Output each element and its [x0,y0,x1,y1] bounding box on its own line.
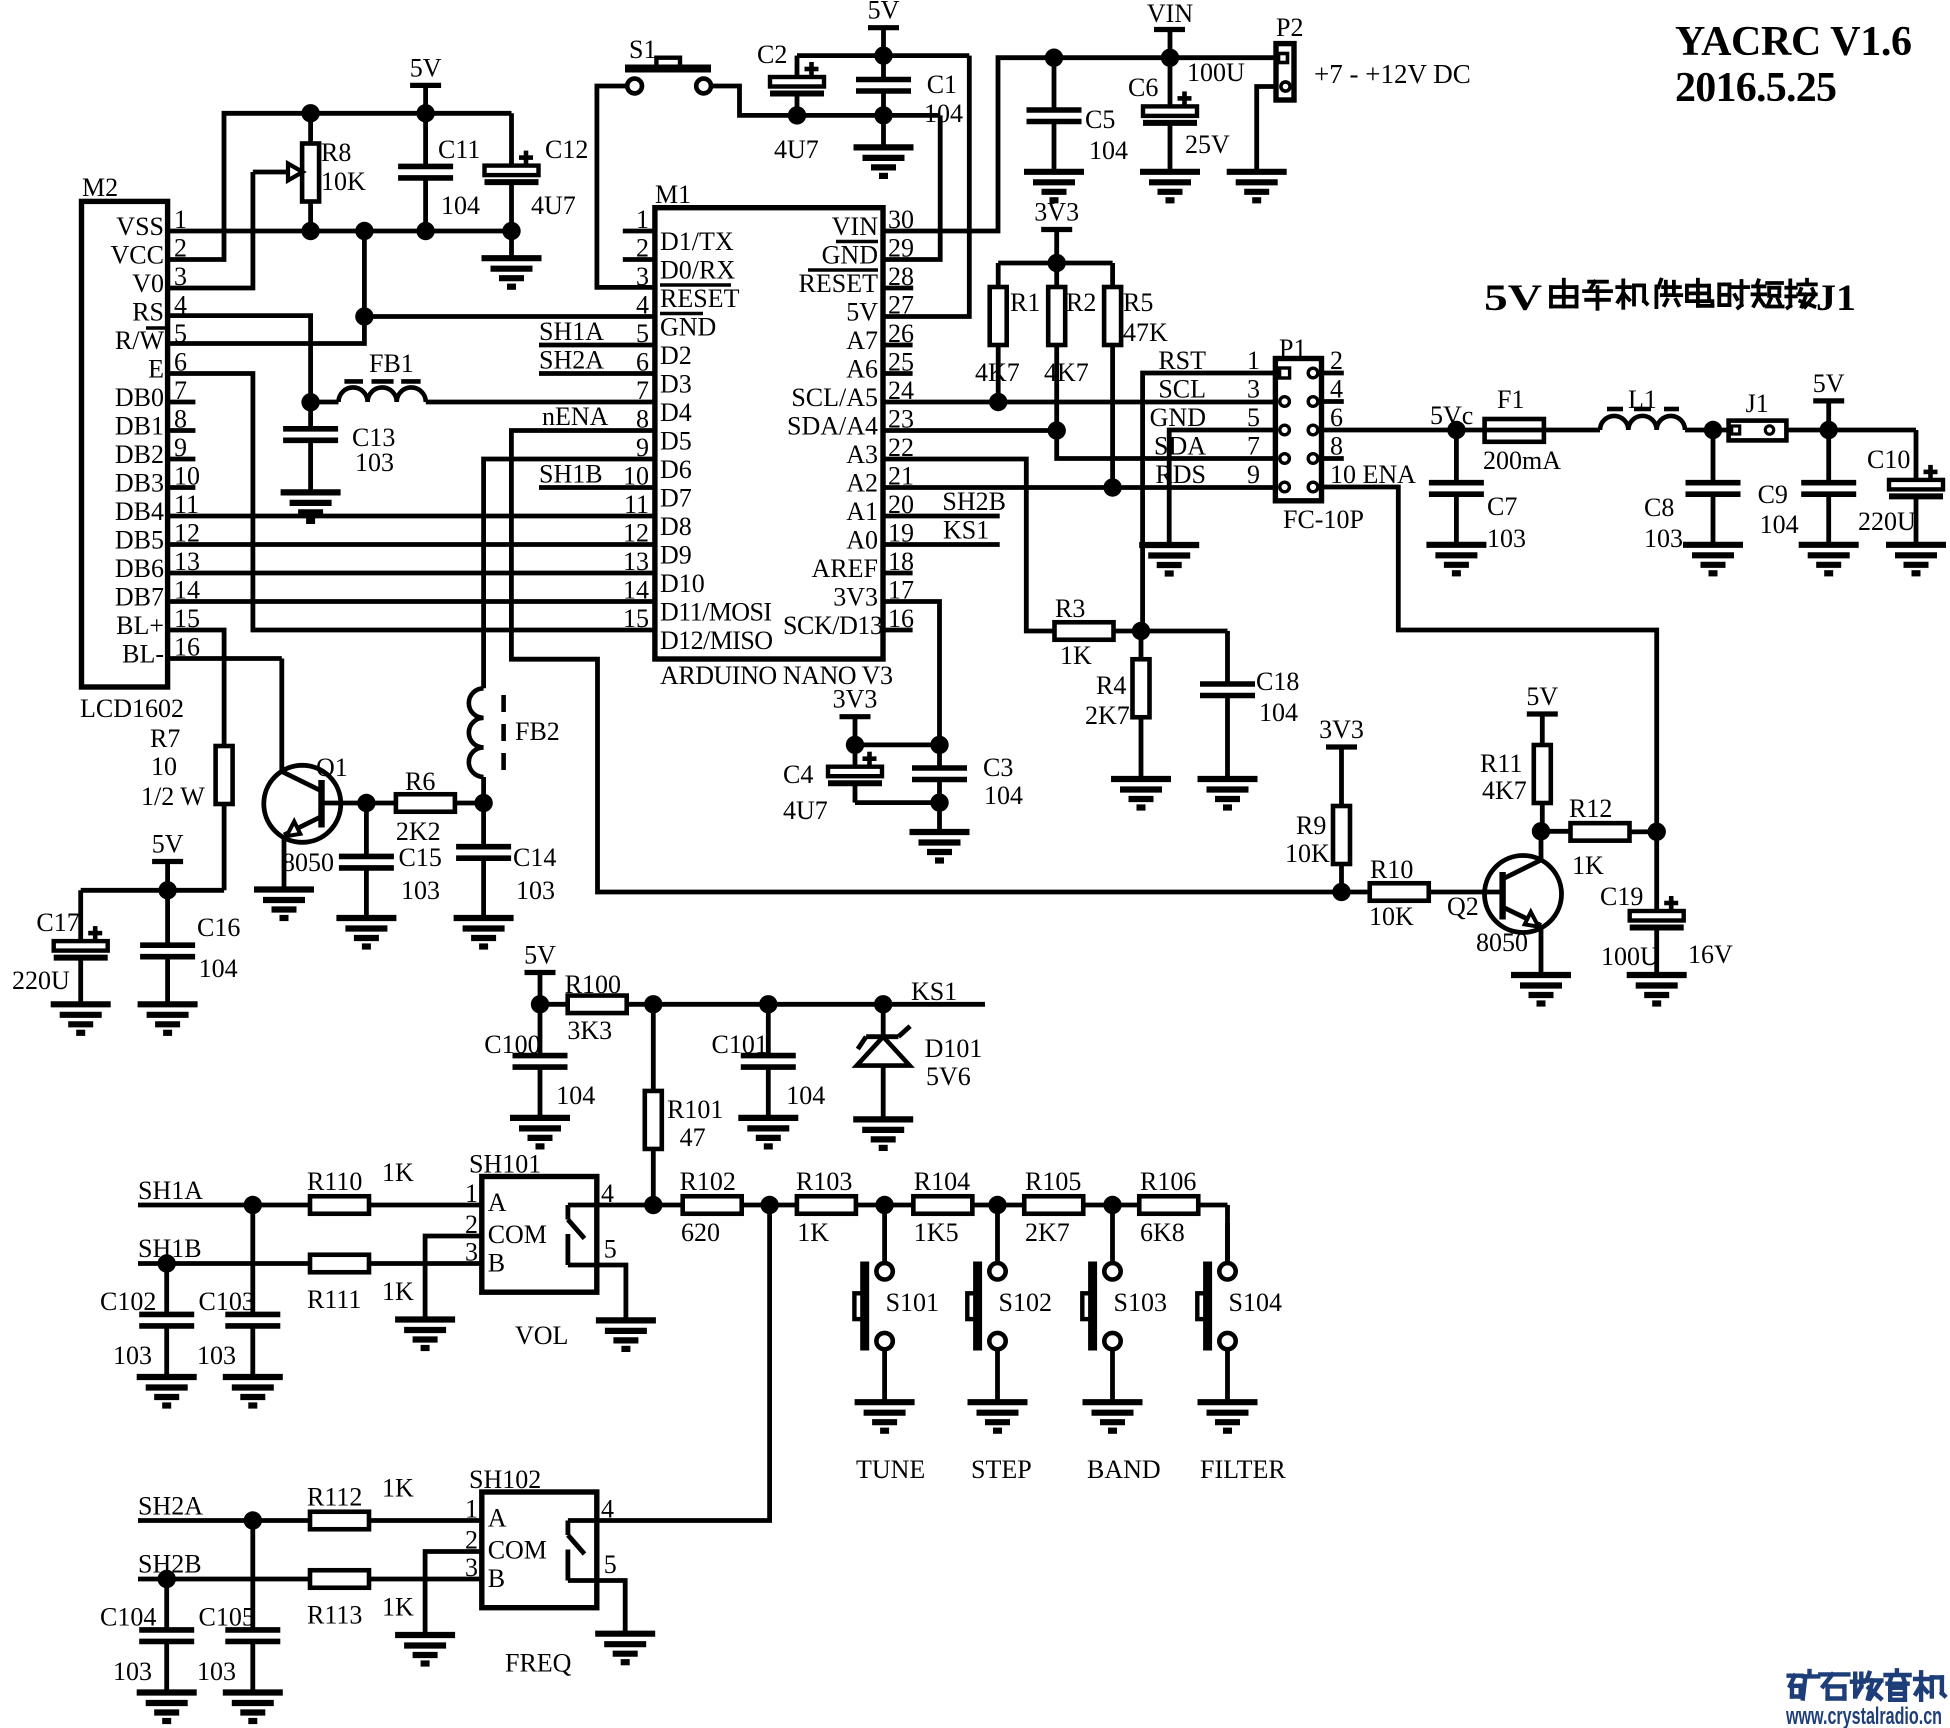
svg-text:1K: 1K [382,1474,414,1503]
svg-text:4K7: 4K7 [1482,776,1527,805]
svg-text:A: A [488,1504,507,1533]
svg-text:C11: C11 [438,135,480,164]
wire 5V top rail [797,53,969,58]
node 5V-C16 junction [158,881,176,899]
wire S1 to ground rail [711,86,940,115]
svg-text:S1: S1 [629,35,656,64]
inductor L1 [1600,385,1685,430]
node 5Vrail-C11 junction [416,104,434,122]
LCD module M2 box [80,173,184,723]
svg-text:D9: D9 [660,541,692,570]
svg-text:D2: D2 [660,341,692,370]
svg-text:FC-10P: FC-10P [1283,505,1364,534]
node SH1B-C102 junction [158,1254,176,1272]
wire P2 pin2 to ground [1257,87,1276,172]
svg-text:3V3: 3V3 [1034,198,1079,227]
label +7-+12V DC [1314,59,1471,89]
wire SH1A line [138,1176,310,1205]
ground SH102 COM [395,1635,455,1664]
svg-text:C18: C18 [1256,667,1299,696]
wire P1 pin8 stub [1322,456,1344,461]
svg-text:5V: 5V [524,941,556,970]
svg-text:16V: 16V [1688,940,1733,969]
ground C5 [1024,172,1084,201]
svg-text:R112: R112 [307,1483,362,1512]
node VIN-C6 junction [1161,49,1179,67]
svg-text:47: 47 [680,1123,706,1152]
svg-text:4K7: 4K7 [1044,358,1089,387]
wire VSS drop to GND line [362,231,367,317]
svg-text:SCL: SCL [1158,375,1206,404]
wire 5V rail to pin27 [883,56,969,317]
wire DB6 to D10 [168,571,655,576]
capacitor C11 [398,113,480,231]
svg-text:100U: 100U [1601,942,1659,971]
svg-text:C3: C3 [983,753,1013,782]
node gndrail-C2 junction [788,106,806,124]
wire A6 stub [883,371,913,376]
wire SCK/D13 stub [883,628,913,633]
svg-text:S104: S104 [1229,1288,1282,1317]
resistor R6 [366,767,483,846]
svg-text:C9: C9 [1758,480,1788,509]
power 3V3 (R9) [1319,715,1364,806]
svg-text:2K2: 2K2 [396,817,441,846]
wire VCC to 5V rail [168,113,512,259]
svg-text:SCK/D13: SCK/D13 [783,611,883,640]
ground C18 [1198,779,1258,808]
svg-text:103: 103 [197,1341,236,1370]
svg-text:R105: R105 [1025,1167,1081,1196]
svg-text:RST: RST [1158,346,1206,375]
wire SH1B line [138,1234,310,1264]
svg-text:Q2: Q2 [1447,892,1479,921]
svg-text:SDA: SDA [1154,432,1206,461]
ground C1 [854,147,914,176]
potentiometer R8 [253,113,366,232]
svg-text:D4: D4 [660,398,692,427]
node FB1-C13 junction [301,393,319,411]
svg-text:8050: 8050 [1476,928,1528,957]
node chain-S101 junction [875,1196,893,1214]
wire SCL net [883,400,1275,405]
svg-text:D5: D5 [660,427,692,456]
svg-text:YACRC V1.6: YACRC V1.6 [1675,19,1912,65]
svg-text:VSS: VSS [116,212,164,241]
wire 3V3 rail [998,261,1112,266]
ground C13 [281,492,341,521]
svg-text:D7: D7 [660,484,692,513]
wire S1 to RESET pin3 [597,86,655,287]
wire LCD DB0 stub [168,400,196,405]
fuse F1 [1456,385,1600,475]
svg-text:C6: C6 [1128,73,1158,102]
svg-text:14: 14 [623,576,649,605]
svg-text:A3: A3 [846,440,878,469]
svg-text:A6: A6 [846,355,878,384]
svg-text:R103: R103 [796,1167,852,1196]
wire ENA from P1 pin10 [1322,487,1657,832]
resistor R2 [1044,263,1096,431]
svg-text:B: B [488,1564,505,1593]
resistor R101 [645,1004,724,1205]
MCU M1 Arduino Nano box [655,180,893,690]
wire ground rail to GND pin29 [883,115,940,259]
wire LCD DB2 stub [168,457,196,462]
svg-text:D8: D8 [660,512,692,541]
wire LCD DB3 stub [168,485,196,490]
svg-text:GND: GND [660,313,716,342]
svg-text:8050: 8050 [282,848,334,877]
ground C12 [482,258,542,287]
node 5Vc junction [1430,401,1473,439]
node SH1A-C103 junction [244,1196,262,1214]
capacitor C3 [912,745,1023,832]
resistor R100 [565,970,627,1045]
wire BL+ to R7 [168,630,225,746]
node GND-RS junction [355,307,373,325]
svg-text:M1: M1 [655,180,691,209]
svg-text:2K7: 2K7 [1025,1218,1070,1247]
svg-text:SH2B: SH2B [942,487,1006,516]
svg-text:9: 9 [1247,460,1260,489]
node chain-S103 junction [1103,1196,1121,1214]
svg-text:C7: C7 [1487,492,1517,521]
ground P1 GND [1139,545,1199,574]
svg-text:25V: 25V [1185,130,1230,159]
power 5V (R11) [1526,682,1558,745]
zener diode D101 [857,1004,983,1119]
power 3V3 (pullups) [1034,198,1079,264]
power VIN [1147,0,1193,58]
svg-text:103: 103 [113,1657,152,1686]
svg-text:3: 3 [636,262,649,291]
svg-text:GND: GND [822,241,878,270]
svg-text:1K: 1K [797,1218,829,1247]
ground C9 [1799,545,1859,574]
resistor R113 [307,1570,482,1629]
svg-text:104: 104 [1089,136,1128,165]
wire D1/TX stub [623,229,655,234]
svg-text:103: 103 [1644,524,1683,553]
svg-text:COM: COM [488,1220,547,1249]
svg-text:R9: R9 [1296,811,1326,840]
svg-text:R101: R101 [667,1095,723,1124]
ground C101 [738,1118,798,1147]
ferrite bead FB2 [469,688,560,777]
wire FB2 to R6 node [481,777,486,803]
svg-text:STEP: STEP [971,1455,1032,1484]
svg-text:R7: R7 [150,724,180,753]
wire R/W line [168,317,365,344]
svg-text:220U: 220U [1858,507,1916,536]
node VSS-C12 junction [502,222,520,240]
power 5V (output) [1813,369,1845,430]
capacitor C101 [712,1004,826,1118]
svg-text:C101: C101 [712,1030,768,1059]
svg-text:4U7: 4U7 [783,796,828,825]
svg-text:RESET: RESET [799,269,879,298]
node SCL-R1 junction [989,393,1007,411]
node Q2 collector junction [1532,822,1550,840]
svg-text:D11/MOSI: D11/MOSI [660,598,772,627]
svg-text:SH1A: SH1A [138,1176,203,1205]
resistor R110 [307,1158,482,1214]
svg-text:104: 104 [1760,510,1799,539]
svg-text:1K: 1K [382,1158,414,1187]
capacitor C9 [1758,430,1857,545]
resistor R11 [1480,745,1551,831]
capacitor C14 [456,803,556,918]
svg-text:SH2A: SH2A [539,346,604,375]
svg-text:R5: R5 [1123,288,1153,317]
svg-text:KS1: KS1 [943,516,989,545]
node chain-S102 junction [988,1196,1006,1214]
svg-text:R10: R10 [1370,855,1413,884]
ground Q1 emitter [254,890,314,919]
svg-text:VOL: VOL [515,1321,568,1350]
svg-text:1K: 1K [382,1277,414,1306]
node 3V3 junction [1048,254,1066,272]
svg-text:7: 7 [636,376,649,405]
svg-text:5V: 5V [846,298,878,327]
wire DB7 to D11 [168,599,655,604]
resistor R9 [1285,806,1350,892]
svg-text:A7: A7 [846,326,878,355]
svg-text:J1: J1 [1746,389,1769,418]
node SH2B-C104 junction [158,1570,176,1588]
resistor R104 [913,1167,1025,1247]
ground C19 [1627,975,1687,1004]
resistor R102 [653,1167,797,1247]
capacitor C10 [1858,445,1943,545]
wire SH102 COM to ground [425,1552,482,1636]
svg-text:5V: 5V [152,830,184,859]
svg-text:DB0: DB0 [115,383,164,412]
wire E to D12/MISO [168,374,655,631]
node VSS-R8 junction [301,222,319,240]
svg-text:R100: R100 [565,970,621,999]
svg-text:DB7: DB7 [115,583,164,612]
watermark crystalradio [1785,1670,1944,1728]
node 5Vtop junction [874,46,892,64]
wire D2 SH1A stub [539,317,655,346]
svg-text:10K: 10K [1285,839,1330,868]
wire SH102 pin4 to chain [597,1205,770,1521]
svg-text:SDA/A4: SDA/A4 [787,412,878,441]
wire SH101 pin4 out [597,1203,654,1208]
svg-text:DB5: DB5 [115,526,164,555]
svg-text:1K: 1K [1572,851,1604,880]
svg-text:R8: R8 [321,138,351,167]
svg-text:11: 11 [624,490,649,519]
svg-text:15: 15 [623,604,649,633]
ground C7 [1426,545,1486,574]
wire V0 to R8 wiper [168,172,253,288]
svg-text:BAND: BAND [1087,1455,1161,1484]
resistor R106 [1139,1167,1227,1247]
wire D0/RX stub [623,257,655,262]
svg-text:R110: R110 [307,1167,362,1196]
svg-text:5V: 5V [1484,278,1542,319]
svg-text:220U: 220U [12,966,70,995]
node VIN-C5 junction [1045,49,1063,67]
ground SH101 COM [395,1320,455,1349]
svg-text:12: 12 [623,519,649,548]
svg-text:R1: R1 [1010,288,1040,317]
svg-text:C12: C12 [545,135,588,164]
svg-text:C10: C10 [1867,445,1910,474]
svg-text:1/2 W: 1/2 W [141,782,205,811]
svg-text:AREF: AREF [812,554,878,583]
svg-text:R113: R113 [307,1601,362,1630]
svg-text:10K: 10K [1369,902,1414,931]
svg-text:VCC: VCC [111,241,164,270]
node VSS-C11 junction [416,222,434,240]
svg-text:2016.5.25: 2016.5.25 [1675,65,1837,111]
svg-text:2K7: 2K7 [1085,701,1130,730]
wire DB4 to D8 [168,514,655,519]
svg-text:C5: C5 [1085,105,1115,134]
jumper J1 [1729,389,1787,440]
svg-text:TUNE: TUNE [856,1455,925,1484]
svg-text:R11: R11 [1480,749,1522,778]
capacitor C17 [12,890,108,1004]
capacitor C4 [783,745,940,825]
node chain-R101 junction [644,1196,662,1214]
wire A7 stub [883,343,913,348]
switch S104 [1197,1223,1286,1484]
node gndrail-C1 junction [874,106,892,124]
svg-text:SH1B: SH1B [539,460,603,489]
svg-text:nENA: nENA [542,402,609,431]
svg-text:104: 104 [441,191,480,220]
ground C6 [1140,172,1200,201]
wire P1 pin4 stub [1322,399,1344,404]
svg-text:R6: R6 [405,767,435,796]
capacitor C6 [1128,58,1245,172]
svg-text:D10: D10 [660,569,705,598]
wire M1 GND pin4 line [364,314,655,319]
wire 5V feed rail [81,888,224,893]
encoder SH102 [465,1465,617,1678]
svg-text:C4: C4 [783,760,813,789]
svg-text:4: 4 [636,291,649,320]
capacitor C1 [856,56,963,148]
node ENA-C19 junction [1648,823,1666,841]
svg-text:47K: 47K [1123,318,1168,347]
svg-text:104: 104 [199,954,238,983]
connector P2 [1276,13,1303,100]
wire D6 to FB2 [484,459,655,688]
wire P1 pin2 stub [1322,371,1344,376]
svg-text:S103: S103 [1114,1288,1167,1317]
svg-text:C1: C1 [927,70,957,99]
resistor R10 [1369,855,1429,931]
svg-text:3V3: 3V3 [1319,715,1364,744]
node L1-C8 junction [1704,421,1722,439]
node 3V3-C3 junction [930,736,948,754]
wire P1 pin6 to 5Vc [1322,428,1457,433]
wire SH2A line [138,1492,310,1521]
svg-text:103: 103 [401,876,440,905]
svg-text:C8: C8 [1644,493,1674,522]
node SDA-R2 junction [1048,421,1066,439]
svg-text:104: 104 [556,1081,595,1110]
node R9-base junction [1332,883,1350,901]
svg-text:10K: 10K [321,167,366,196]
svg-text:www.crystalradio.cn: www.crystalradio.cn [1785,1703,1942,1728]
switch S102 [967,1205,1052,1484]
ground C10 [1886,545,1946,574]
svg-text:SH1A: SH1A [539,317,604,346]
power 5V (keypad) [524,941,556,1005]
svg-text:BL-: BL- [122,640,164,669]
transistor Q2 [1430,831,1562,975]
node VSS-M1GND junction [355,222,373,240]
svg-text:A: A [488,1188,507,1217]
label chinese note [1484,278,1856,319]
node chain-SH102 junction [760,1196,778,1214]
ground C8 [1683,545,1743,574]
svg-text:M2: M2 [82,173,118,202]
LCD pin labels and numbers [111,205,200,669]
svg-text:1: 1 [1247,346,1260,375]
svg-text:4U7: 4U7 [531,191,576,220]
svg-text:S102: S102 [999,1288,1052,1317]
ground P2 [1227,172,1287,201]
ground C102 [137,1377,197,1406]
svg-text:SH102: SH102 [469,1465,541,1494]
svg-text:C19: C19 [1600,882,1643,911]
svg-text:KS1: KS1 [911,977,957,1006]
ground C105 [223,1693,283,1722]
capacitor C18 [1200,631,1299,779]
wire KS1 rail [540,977,985,1006]
node C4-C3 junction [930,793,948,811]
svg-text:3: 3 [1247,375,1260,404]
svg-text:D3: D3 [660,370,692,399]
label 2016.5.25 [1675,65,1837,111]
connector P1 [1150,334,1417,534]
wire R3 to C18 [1113,629,1228,634]
wire AREF stub [883,571,913,576]
svg-text:5V6: 5V6 [926,1062,971,1091]
svg-text:F1: F1 [1497,385,1524,414]
wire D4 to FB1 [426,400,655,405]
power 5V (backlight) [152,830,184,891]
svg-text:3K3: 3K3 [567,1016,612,1045]
node KS1-R101 junction [644,995,662,1013]
resistor R5 [1104,263,1168,488]
wire D3 SH2A stub [539,346,655,375]
svg-text:C105: C105 [199,1603,255,1632]
wire A1 SH2B stub [883,487,1006,516]
label YACRC V1.6 [1675,19,1912,65]
ferrite bead FB1 [339,349,426,402]
node 3V3-C4 junction [846,736,864,754]
svg-text:C102: C102 [100,1287,156,1316]
svg-text:DB4: DB4 [115,497,164,526]
svg-text:1K: 1K [1060,641,1092,670]
svg-text:RESET: RESET [660,284,740,313]
svg-text:A0: A0 [846,526,878,555]
wire P1 GND pin5 [1169,430,1275,545]
capacitor C103 [197,1205,280,1377]
wire J1 to C10 [1786,430,1916,480]
wire VSS ground rail [168,229,512,234]
ground C15 [336,918,396,947]
